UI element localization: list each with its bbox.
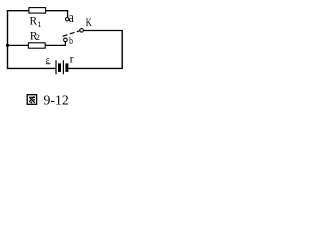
wire: top branch right segment from R1 down to contact a (46, 11, 68, 18)
wire: R2 branch left segment (8, 44, 29, 46)
svg-text:R: R (30, 16, 38, 28)
battery cell plate: long thin 1 (55, 60, 57, 74)
svg-text:1: 1 (38, 20, 42, 29)
node: junction dot on left wire (6, 44, 9, 47)
wire: bottom left segment to battery (7, 67, 56, 69)
battery cell plate: short thick 1 (58, 63, 61, 72)
wire: top branch left segment to R1 (7, 10, 30, 12)
svg-text:9-12: 9-12 (44, 94, 69, 109)
contact a (circle) (66, 18, 69, 21)
battery cell plate: long thin 2 (62, 60, 64, 74)
label epsilon underline (46, 62, 51, 65)
contact b (circle) (64, 38, 68, 42)
svg-text:2: 2 (36, 33, 40, 42)
switch K blade (dashed) (63, 31, 80, 37)
background (0, 0, 139, 114)
caption: character tu (figure) drawn as glyph (27, 95, 36, 105)
wire: right vertical branch (121, 31, 123, 70)
wire: bottom right segment from battery (68, 67, 123, 69)
resistor R1 (29, 8, 46, 14)
wire: R2 branch right segment up to contact b (45, 42, 65, 46)
battery cell plate: short thick 2 (65, 63, 68, 72)
switch K pivot (circle) (80, 29, 84, 33)
svg-text:b: b (69, 35, 73, 47)
resistor R2 (28, 43, 45, 48)
wire: left vertical branch (7, 10, 9, 69)
svg-text:r: r (70, 52, 74, 66)
wire: from pivot to right vertical (84, 30, 123, 32)
svg-text:a: a (69, 10, 74, 26)
svg-text:K: K (86, 15, 92, 29)
